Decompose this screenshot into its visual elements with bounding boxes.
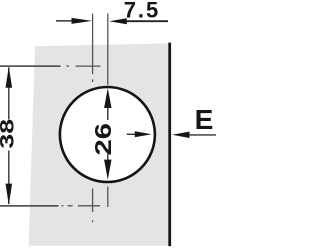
centerline vertical (screw axis) x=92.6 solid top / 7.5 left extension <box>92 14 94 75</box>
svg-text:38: 38 <box>0 119 18 149</box>
top cross horizontal dot <box>67 65 70 67</box>
svg-text:26: 26 <box>90 123 116 155</box>
panel (door cross-section, gray) <box>29 43 169 245</box>
dimension E line <box>189 134 217 136</box>
dimension 26 arrow down <box>104 160 111 180</box>
dimension 38 extension line top (y=65.7) <box>0 65 61 67</box>
arrow left-pointing at right ext line <box>109 18 127 24</box>
panel front edge line <box>168 43 171 247</box>
svg-text:7.5: 7.5 <box>124 0 160 22</box>
bottom cross vertical dash <box>92 189 94 213</box>
dimension 26 line lower <box>107 154 109 161</box>
svg-text:E: E <box>195 104 214 135</box>
bottom cross horizontal short dash <box>68 205 73 207</box>
cup centerline dash below circle <box>107 187 109 208</box>
arrow right-pointing at left ext line <box>72 18 93 24</box>
dimension 38 arrow up <box>6 67 13 88</box>
cup hole circle 26mm <box>60 87 155 182</box>
dimension 38 extension line bottom (y=205.8) <box>0 205 59 207</box>
centerline arrow to cup edge (right, inside circle) <box>127 133 136 135</box>
cup centerline vertical x=107.8 / 7.5 right extension <box>107 14 109 85</box>
dimension 7.5 line right segment <box>126 20 168 22</box>
bottom cross horizontal dot <box>62 205 64 207</box>
dimension 38 arrow down <box>6 184 13 205</box>
top cross horizontal dash <box>76 65 101 67</box>
dimension 26 arrow up <box>104 88 111 108</box>
dimension 26 line upper <box>107 107 109 120</box>
centerline dot below <box>92 80 94 83</box>
bottom cross horizontal long dash <box>78 205 100 207</box>
bottom cross vertical dot <box>92 220 94 222</box>
dimension E arrow (points left at panel edge) <box>172 132 190 138</box>
dimension 38 vertical line lower segment <box>8 151 10 205</box>
dimension 38 vertical line upper segment <box>8 67 10 119</box>
dimension 7.5 line left segment <box>56 20 75 22</box>
